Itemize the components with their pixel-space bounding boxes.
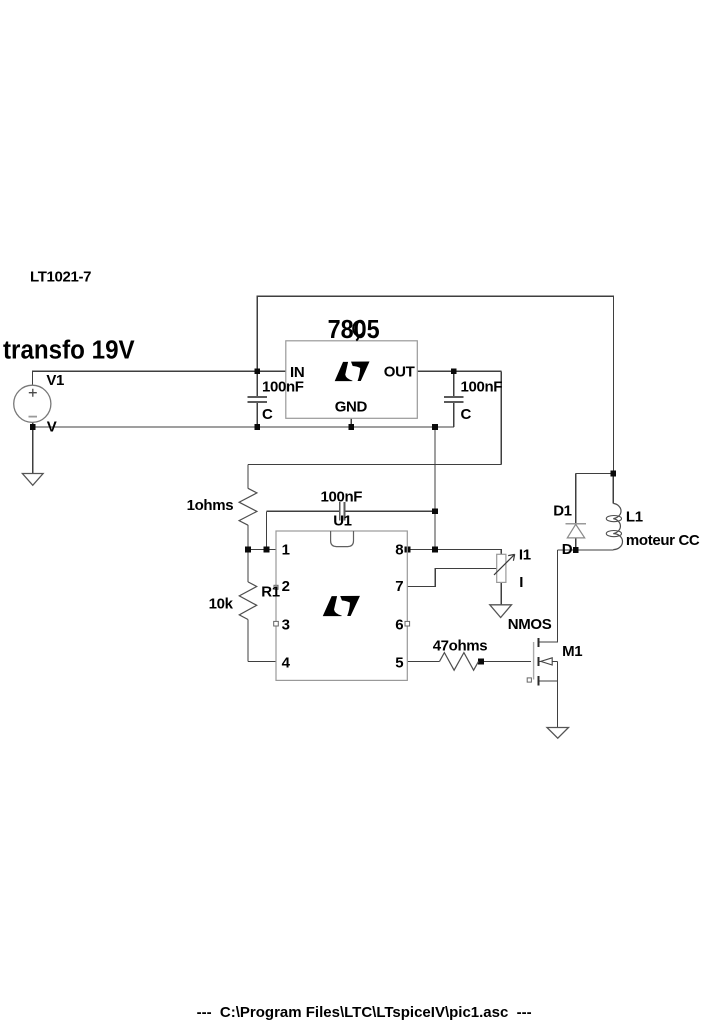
- diode D1 triangle: [567, 524, 584, 538]
- resistor 47ohms zigzag: [440, 653, 479, 671]
- node 47ohms / gate junction: [478, 659, 484, 665]
- voltage source V1: [14, 385, 51, 422]
- svg-text:V1: V1: [46, 372, 64, 389]
- svg-text:6: 6: [395, 617, 403, 634]
- wire bypass cap net: [267, 511, 436, 549]
- svg-text:C: C: [262, 406, 273, 423]
- resistor 1ohms zigzag: [239, 488, 257, 525]
- node D drain junction: [573, 547, 579, 553]
- svg-text:GND: GND: [335, 399, 368, 416]
- wire M1 source and bulk to ground: [539, 662, 558, 728]
- node 1ohms / pin1 junction: [245, 547, 251, 553]
- wire main vertical to U1 pin 8: [434, 427, 436, 550]
- node C1 on ground rail: [254, 424, 260, 430]
- svg-text:moteur CC: moteur CC: [626, 532, 700, 549]
- node bypass cap on main vertical: [432, 509, 438, 515]
- regulator 7805 box: [286, 341, 418, 419]
- svg-text:10k: 10k: [209, 596, 234, 613]
- svg-text:--- C:\Program Files\LTC\LTsp: --- C:\Program Files\LTC\LTspiceIV\pic1.…: [197, 1004, 532, 1021]
- pin 3 open square: [274, 621, 279, 626]
- capacitor C1 plates: [248, 397, 268, 402]
- wire 5V feed line: [248, 463, 501, 465]
- wire loop down to 1ohms: [247, 464, 249, 488]
- node IN rail / C1 junction: [254, 369, 260, 375]
- wire M1 drain up to node D: [539, 550, 558, 642]
- ground below I1: [490, 605, 512, 618]
- svg-text:1: 1: [282, 542, 290, 559]
- svg-text:100nF: 100nF: [262, 378, 304, 395]
- wire U1 pin 5 to 47ohms: [407, 660, 439, 662]
- wire 7805 GND stub: [350, 418, 352, 427]
- node L1 top junction: [611, 471, 617, 477]
- svg-text:L1: L1: [626, 509, 643, 526]
- svg-text:M1: M1: [562, 643, 582, 660]
- svg-text:U1: U1: [333, 513, 351, 530]
- svg-text:100nF: 100nF: [461, 378, 503, 395]
- svg-text:transfo 19V: transfo 19V: [3, 336, 135, 365]
- node 7805 GND on ground rail: [349, 424, 355, 430]
- wire right loop vertical: [500, 371, 502, 464]
- transistor M1 gate pin open square: [527, 678, 531, 682]
- wire diode top to L1 node: [576, 473, 614, 475]
- node bypass cap / pin1 junction: [264, 547, 270, 553]
- 7805 overlapped glyph: [353, 322, 364, 336]
- wire V1 bottom stub and ground drop: [32, 422, 34, 473]
- inductor L1 loop ellipses: [606, 516, 621, 522]
- capacitor 100nF bypass plates: [340, 502, 345, 521]
- wire 1ohms bottom to pin1 node: [247, 525, 249, 549]
- LT logo inside U1: [323, 596, 360, 616]
- node OUT rail / C2 junction: [451, 369, 457, 375]
- wire U1 pin 4: [248, 661, 276, 663]
- wire 7805 OUT rail: [417, 370, 501, 372]
- node main vertical / pin8 junction: [432, 547, 438, 553]
- wire capacitor C1 stubs: [256, 371, 258, 427]
- svg-text:D: D: [562, 541, 573, 558]
- svg-text:D1: D1: [553, 503, 571, 520]
- wire L1 top stub: [612, 474, 614, 504]
- node main vertical on ground rail: [432, 424, 438, 430]
- svg-text:NMOS: NMOS: [508, 616, 552, 633]
- svg-text:8: 8: [395, 542, 403, 559]
- wire node D to L1 bottom: [558, 549, 614, 551]
- svg-text:100nF: 100nF: [321, 489, 363, 506]
- LT logo inside 7805: [335, 362, 370, 382]
- wire ground rail: [33, 426, 454, 428]
- wire V1 top to 7805 IN rail: [33, 371, 287, 385]
- ground below M1: [547, 728, 569, 739]
- wire U1 pin 7 jog to I1: [407, 569, 496, 587]
- svg-text:C: C: [461, 406, 472, 423]
- svg-text:5: 5: [395, 654, 403, 671]
- svg-text:4: 4: [282, 654, 291, 671]
- resistor R1 10k zigzag: [239, 582, 256, 620]
- svg-text:I1: I1: [519, 547, 531, 564]
- svg-text:3: 3: [282, 617, 290, 634]
- svg-text:LT1021-7: LT1021-7: [30, 269, 91, 286]
- wire top loop from IN node over to motor branch: [257, 296, 613, 473]
- svg-text:2: 2: [282, 578, 290, 595]
- U1 notch: [331, 531, 354, 547]
- capacitor C2 plates: [444, 397, 464, 402]
- transistor M1 bulk arrow: [541, 658, 552, 665]
- wire I1 to ground: [500, 582, 502, 604]
- current source I1 arrow: [494, 554, 515, 575]
- svg-text:7: 7: [395, 578, 403, 595]
- wire U1 pin 1: [248, 549, 276, 551]
- inductor L1 coil: [613, 503, 622, 549]
- pin 6 open square: [405, 621, 410, 626]
- wire capacitor C2 stubs: [453, 371, 455, 427]
- transistor M1 channel segments: [538, 638, 540, 685]
- wire M1 bulk tie: [539, 661, 558, 663]
- svg-text:I: I: [519, 574, 523, 591]
- diode D1 cathode bar: [566, 523, 587, 525]
- pin 2 open square: [274, 585, 278, 589]
- current source I1 box: [497, 554, 506, 582]
- transistor M1 gate bar: [533, 642, 535, 680]
- wire U1 pin 8 to I1: [407, 550, 501, 555]
- svg-text:OUT: OUT: [384, 364, 415, 381]
- wire 10k stubs: [247, 550, 249, 662]
- svg-text:47ohms: 47ohms: [433, 638, 488, 655]
- node V1 minus on ground rail: [30, 424, 36, 430]
- node U1 pin 8: [405, 547, 411, 553]
- svg-text:R1: R1: [261, 584, 279, 601]
- svg-text:1ohms: 1ohms: [187, 497, 234, 514]
- wire diode D1 terminals: [575, 474, 577, 551]
- wire 47ohms to M1 gate: [479, 660, 532, 662]
- ground below V1: [22, 474, 43, 486]
- opamp U1 box: [276, 531, 407, 680]
- svg-text:V: V: [47, 418, 57, 435]
